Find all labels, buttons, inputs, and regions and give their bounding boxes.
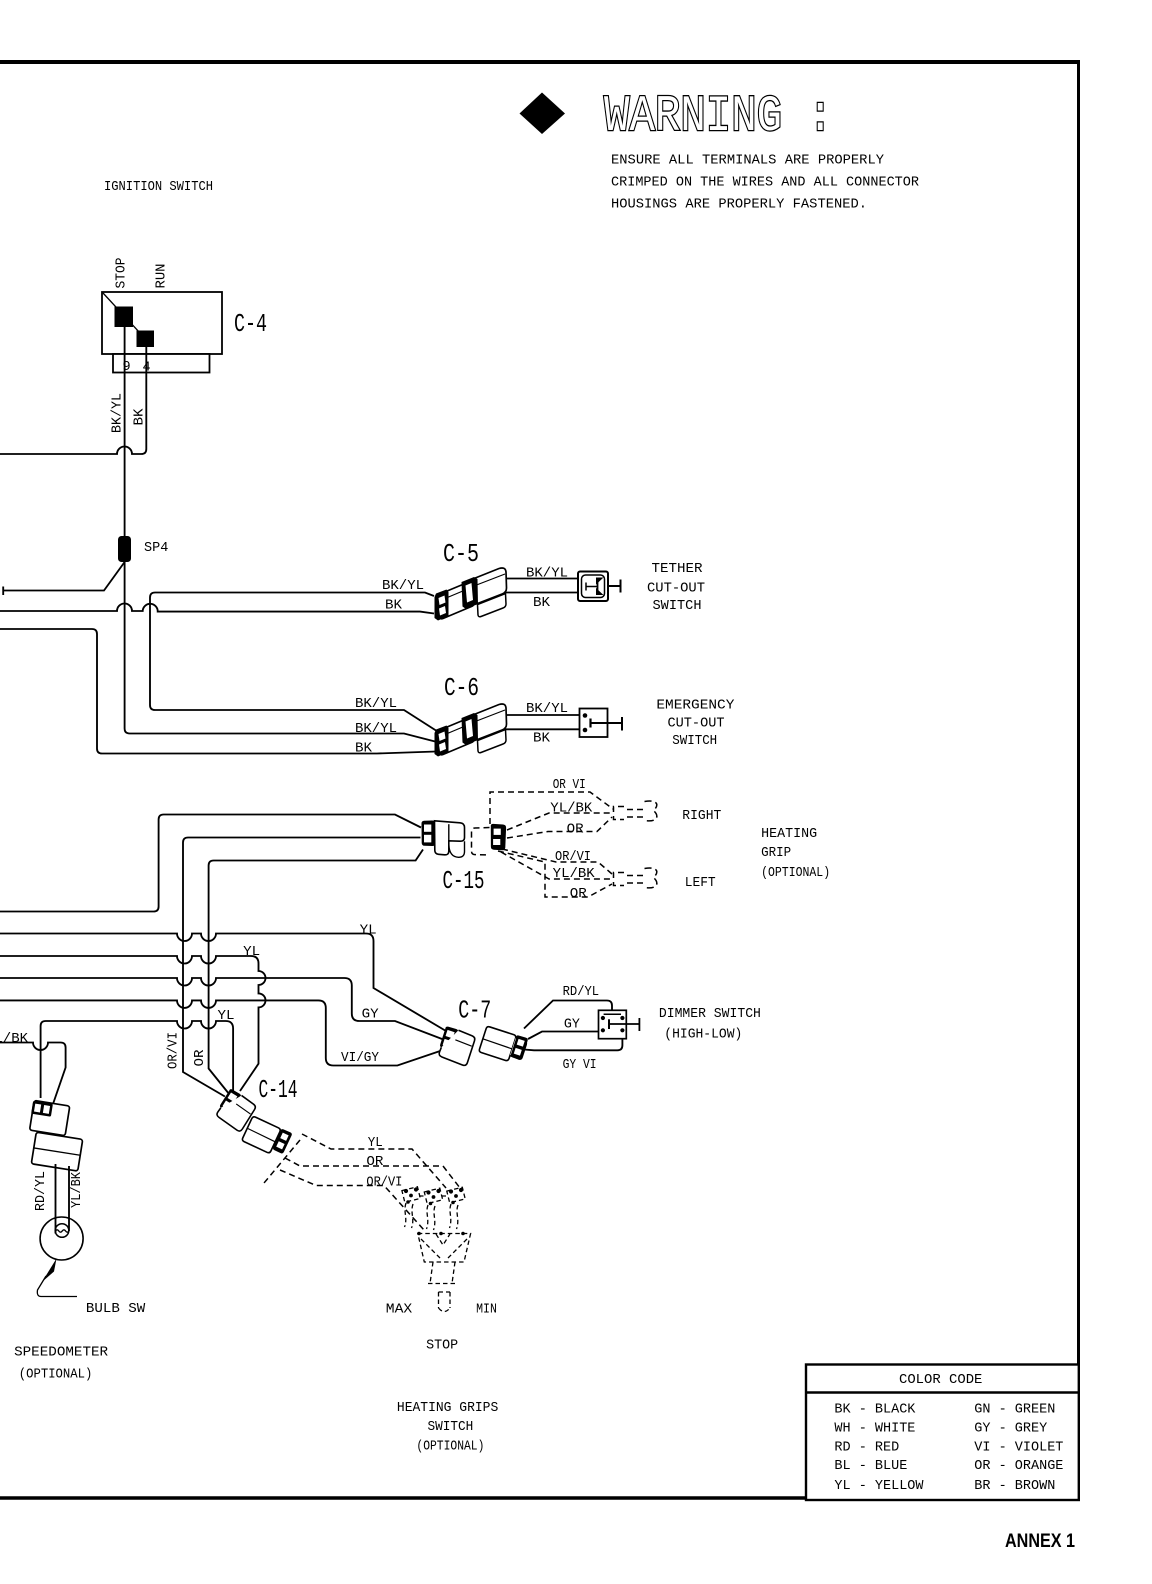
RIGHT label [682,809,721,824]
svg-text:GY - GREY: GY - GREY [974,1422,1047,1437]
wire C-6 to emergency switch BK/YL [506,714,581,716]
svg-text:C-14: C-14 [259,1075,298,1105]
svg-text:STOP: STOP [426,1339,458,1354]
svg-text:C-4: C-4 [234,309,267,339]
connector C-14 [214,1088,258,1132]
wire BK to C-5 [0,604,434,614]
wire RD/YL C-7 to dimmer [524,1001,612,1029]
BK label left of C-5 [385,599,403,614]
svg-text:BULB SW: BULB SW [86,1302,146,1317]
wire GY bundle3 to C-7 [0,978,446,1041]
svg-text:BK: BK [355,742,373,757]
BULB SW label [86,1302,146,1317]
wire YL bundle1 to C-7 [0,934,446,1032]
wire RD/YL C-8 to bulb [55,1164,57,1234]
C-4 label [234,309,267,339]
svg-text:BK: BK [533,596,551,611]
svg-text:SWITCH: SWITCH [653,599,702,614]
MIN label [476,1303,497,1318]
wire GY/VI C-7 to dimmer [524,1033,622,1051]
svg-text:RUN: RUN [155,264,170,289]
svg-text:OR - ORANGE: OR - ORANGE [974,1459,1063,1474]
YL label bundle1 [360,924,377,939]
svg-text:MIN: MIN [476,1303,497,1318]
svg-text:OR/VI: OR/VI [555,850,591,865]
BK label right of C-5 [533,596,551,611]
dashed wire YL/BK right grip [507,813,611,830]
svg-text:COLOR CODE: COLOR CODE [899,1373,982,1388]
svg-text:YL: YL [243,945,260,960]
svg-text:C-6: C-6 [444,673,479,703]
svg-text:OR: OR [366,1155,383,1170]
svg-text:HEATING GRIPS: HEATING GRIPS [397,1401,498,1416]
C-5 label [443,539,479,569]
wire BK to C-6 via left edge [0,629,436,754]
dashed wire OR/VI left grip [502,849,612,874]
RD/YL label [563,985,600,1000]
connector C-8 [23,1100,87,1171]
C-6 label [444,673,479,703]
GY VI label [563,1058,597,1073]
wire YL/BK to C-8 [0,1043,66,1105]
OR rotated label [193,1050,208,1067]
svg-text:WARNING :: WARNING : [604,89,833,146]
svg-text:YL - YELLOW: YL - YELLOW [834,1479,924,1494]
svg-text:GN - GREEN: GN - GREEN [974,1403,1055,1418]
warning text [611,154,919,213]
heating grips switch [402,1187,471,1312]
OR/VI label left grip [555,850,591,865]
svg-text:BK/YL: BK/YL [355,722,397,737]
BK/YL label 1 left of C-6 [355,697,397,712]
svg-text:OR: OR [193,1050,208,1067]
svg-text:SWITCH: SWITCH [428,1420,474,1435]
pin 4 [143,361,151,376]
C-14 label [259,1075,298,1105]
OR/VI rotated label [166,1032,181,1069]
GY label [564,1018,580,1033]
LEFT label [685,876,716,891]
svg-text:GY VI: GY VI [563,1058,597,1073]
svg-text:BK/YL: BK/YL [382,579,424,594]
svg-text:BK: BK [385,599,403,614]
wire YL/BK C-8 to bulb [68,1166,70,1231]
svg-text:YL/BK: YL/BK [0,1032,29,1047]
svg-text:YL: YL [368,1136,383,1151]
speedometer label [14,1346,108,1383]
svg-text:IGNITION SWITCH: IGNITION SWITCH [104,180,213,195]
splice SP4 [118,536,131,562]
svg-text:RD - RED: RD - RED [834,1440,899,1455]
wire C-6 to emergency switch BK [506,728,581,730]
svg-text:YL: YL [218,1009,235,1024]
svg-text:OR/VI: OR/VI [166,1032,181,1069]
heating grip label [761,827,830,881]
svg-text:SP4: SP4 [144,541,168,556]
wire BK/YL pin9 down to SP4 [124,373,126,537]
svg-text:VI/GY: VI/GY [341,1051,379,1066]
STOP label [115,258,130,289]
C-15 label [443,866,485,896]
dashed wire OR/VI heating switch [280,1170,424,1230]
dashed wire OR right grip [507,817,612,838]
color code left column [834,1403,924,1495]
emergency switch label [656,699,734,750]
svg-text:BK: BK [533,732,551,747]
YL label bundle2 [243,945,260,960]
wire YL C-8 to C-14 [41,1021,234,1098]
svg-text:LEFT: LEFT [685,876,716,891]
BK label left of C-6 [355,742,373,757]
svg-text:YL/BK: YL/BK [553,867,596,882]
OR label heating [366,1155,383,1170]
dashed wire OR VI right grip [490,792,613,824]
connector C-7 right [479,1025,529,1065]
svg-text:C-5: C-5 [443,539,479,569]
heating grips switch label [397,1401,498,1455]
svg-text:HEATING: HEATING [761,827,817,842]
svg-text:SWITCH: SWITCH [672,734,717,749]
OR VI label [553,778,586,793]
BK/YL label C-4 [111,393,126,433]
svg-text:(OPTIONAL): (OPTIONAL) [19,1368,93,1383]
svg-text:BK/YL: BK/YL [526,702,568,717]
BK/YL label right of C-6 [526,702,568,717]
color code box [806,1365,1079,1501]
BK label C-4 [133,408,148,426]
RD/YL rotated label C-8 [34,1171,49,1211]
YL/BK label right grip [550,802,593,817]
svg-text:(HIGH-LOW): (HIGH-LOW) [664,1028,742,1043]
svg-text:TETHER: TETHER [652,562,703,577]
connector C-6 [435,704,507,757]
color code title [899,1373,982,1388]
svg-text:SPEEDOMETER: SPEEDOMETER [14,1346,108,1361]
svg-text:OR/VI: OR/VI [366,1176,402,1191]
svg-text:C-7: C-7 [458,996,491,1026]
bulb switch arrow [37,1259,77,1297]
right grip terminal [614,801,657,821]
connector C-15 mating half dashed [472,824,507,855]
left grip terminal [614,868,657,888]
annex label [1005,1531,1075,1552]
svg-text:ANNEX 1: ANNEX 1 [1005,1531,1075,1552]
svg-text:HOUSINGS ARE PROPERLY FASTENED: HOUSINGS ARE PROPERLY FASTENED. [611,198,867,213]
OR label right grip [567,823,584,838]
YL label C-14 [218,1009,235,1024]
svg-text:CRIMPED ON THE WIRES AND ALL C: CRIMPED ON THE WIRES AND ALL CONNECTOR [611,176,919,191]
tether switch label [647,562,705,614]
svg-text:STOP: STOP [115,258,130,289]
svg-text:ENSURE ALL TERMINALS ARE PROPE: ENSURE ALL TERMINALS ARE PROPERLY [611,154,884,169]
wire GY C-7 to dimmer [528,1032,601,1040]
warning title [604,89,833,146]
svg-text:YL/BK: YL/BK [70,1171,85,1208]
YL/BK label left grip [553,867,596,882]
svg-text:OR VI: OR VI [553,778,586,793]
svg-text:BR - BROWN: BR - BROWN [974,1479,1055,1494]
page bottom border [0,1496,807,1500]
svg-text:GY: GY [564,1018,580,1033]
svg-text:BL - BLUE: BL - BLUE [834,1459,907,1474]
svg-text:YL/BK: YL/BK [550,802,593,817]
svg-text:MAX: MAX [386,1303,412,1318]
dashed wire YL heating switch [302,1134,446,1188]
color code right column [974,1403,1063,1495]
YL/BK rotated label C-8 [70,1171,85,1208]
svg-text:WH - WHITE: WH - WHITE [834,1422,915,1437]
OR/VI label heating [366,1176,402,1191]
wire VI/GY bundle4 to C-7 [0,1000,446,1065]
dashed wire OR left grip [498,851,612,897]
RUN label [155,264,170,289]
wire SP4 branch to left edge [3,562,125,595]
page top border [0,60,1080,64]
GY label corner [362,1008,379,1023]
connector C-4 [102,292,222,373]
svg-text:(OPTIONAL): (OPTIONAL) [761,866,830,881]
OR label left grip [570,887,587,902]
connector C-5 [435,568,507,621]
svg-text:GRIP: GRIP [761,846,791,861]
VI/GY label [341,1051,379,1066]
svg-text:(OPTIONAL): (OPTIONAL) [416,1440,484,1455]
wire BK pin4 to left edge [0,373,146,455]
dashed wire YL/BK left grip [501,852,611,879]
page right border [1077,60,1080,1500]
wire C-5 to tether switch BK/YL [506,578,578,580]
svg-text:CUT-OUT: CUT-OUT [668,717,725,732]
dimmer switch label [659,1007,761,1043]
emergency cut-out switch [580,709,623,738]
svg-text:EMERGENCY: EMERGENCY [656,699,734,714]
connector C-7 left [436,1026,476,1066]
warning diamond [520,93,566,135]
svg-text:OR: OR [570,887,587,902]
STOP label [426,1339,458,1354]
tether cut-out switch [578,572,621,602]
svg-text:OR: OR [567,823,584,838]
YL/BK label edge [0,1032,29,1047]
connector C-15 [421,821,464,858]
ignition switch label [104,180,213,195]
wire OR/VI to C-15 and C-14 [209,850,423,1095]
svg-text:RD/YL: RD/YL [34,1171,49,1211]
svg-text:BK/YL: BK/YL [355,697,397,712]
svg-text:BK/YL: BK/YL [526,567,568,582]
dimmer switch [599,1010,640,1038]
BK/YL label left of C-5 [382,579,424,594]
svg-text:VI - VIOLET: VI - VIOLET [974,1440,1063,1455]
dashed wire OR heating switch [285,1158,460,1188]
svg-text:RIGHT: RIGHT [682,809,721,824]
svg-text:GY: GY [362,1008,379,1023]
svg-text:BK/YL: BK/YL [111,393,126,433]
svg-text:CUT-OUT: CUT-OUT [647,582,705,597]
BK/YL label 2 left of C-6 [355,722,397,737]
speedometer circle [40,1217,83,1260]
dashed fan edge [264,1140,300,1183]
svg-text:BK - BLACK: BK - BLACK [834,1403,916,1418]
svg-text:DIMMER SWITCH: DIMMER SWITCH [659,1007,761,1022]
wire OR to C-15 and C-14 [183,838,421,1097]
wire YL/BK to C-15 [0,815,421,912]
svg-text:C-15: C-15 [443,866,485,896]
SP4 label [144,541,168,556]
C-7 label [458,996,491,1026]
wire YL bundle2 to C-14 [0,956,266,1091]
wire C-5 to tether switch BK [506,592,578,594]
svg-text:YL: YL [360,924,377,939]
YL label heating [368,1136,383,1151]
BK label right of C-6 [533,732,551,747]
MAX label [386,1303,412,1318]
BK/YL label right of C-5 [526,567,568,582]
connector C-14 mating half [242,1115,293,1159]
wire BK/YL SP4 down to C-6 [125,562,437,742]
pin 9 [123,360,131,375]
svg-text:RD/YL: RD/YL [563,985,600,1000]
wire BK/YL to C-5 and C-6 [150,593,436,731]
svg-text:BK: BK [133,408,148,426]
